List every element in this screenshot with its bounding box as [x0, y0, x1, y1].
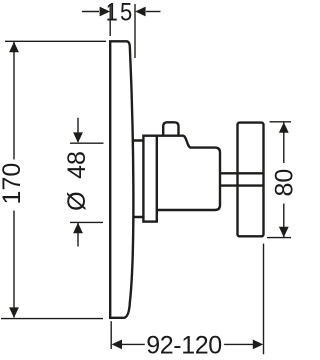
mounting flange	[143, 136, 156, 222]
dimension line d48	[77, 118, 79, 247]
extension line top d48	[70, 142, 104, 144]
dimension line 92-120	[122, 343, 254, 345]
extension line right of 15	[134, 4, 136, 58]
extension line bottom 80	[267, 237, 291, 239]
dimension line 170	[13, 42, 15, 318]
extension line right 92-120	[263, 244, 265, 355]
dimension line 80	[283, 123, 285, 238]
arrow leader right 15	[146, 11, 161, 13]
svg-text:15: 15	[106, 0, 135, 26]
valve body	[157, 136, 220, 210]
arrow leader left 15	[82, 11, 99, 13]
arrowhead left 92-120	[112, 340, 122, 350]
dimension 15 (plate depth)	[82, 4, 161, 58]
arrowhead right 92-120	[253, 340, 263, 350]
dimension diameter 48	[70, 118, 104, 247]
arrowhead top 170	[9, 42, 19, 53]
wall plate (escutcheon) side profile	[110, 41, 133, 318]
handle stem / cross arm	[220, 173, 264, 185]
extension line left 92-120	[110, 321, 112, 349]
arrowhead right 15	[135, 7, 145, 17]
svg-text:170: 170	[0, 163, 26, 205]
extension line bottom 170	[1, 318, 103, 320]
extension line bottom d48	[70, 221, 103, 223]
arrowhead top 80	[279, 122, 289, 133]
cross handle (side view)	[238, 123, 264, 237]
svg-text:92-120: 92-120	[146, 332, 221, 360]
svg-text:80: 80	[271, 169, 297, 197]
dimension 92-120 (wall to handle)	[111, 244, 263, 355]
sleeve behind plate (upper and lower edges)	[133, 141, 144, 218]
arrowhead left 15	[100, 7, 110, 17]
extension line left of 15	[109, 4, 111, 36]
dimension 170 (plate height)	[1, 41, 106, 318]
dimension 80 (handle height)	[267, 122, 291, 238]
arrowhead bottom 80	[279, 227, 289, 238]
extension line top 80	[270, 121, 292, 123]
arrowhead bottom d48	[73, 223, 83, 234]
adjustment knob	[163, 122, 178, 135]
svg-text:Ø 48: Ø 48	[63, 151, 91, 211]
arrowhead top d48	[73, 132, 83, 143]
extension line top 170	[5, 40, 106, 42]
arrowhead bottom 170	[9, 307, 19, 318]
